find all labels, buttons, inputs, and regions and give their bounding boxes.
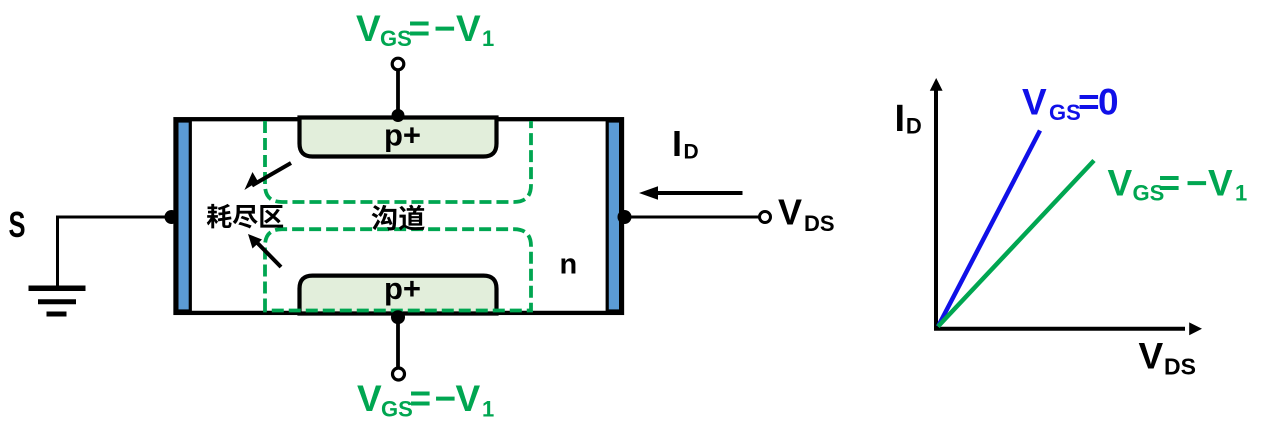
svg-text:DS: DS (804, 211, 835, 236)
p+ gate region (top) (300, 118, 497, 157)
svg-text:I: I (895, 98, 906, 140)
JFET device body (n region) (176, 119, 623, 313)
svg-text:V: V (356, 8, 381, 49)
svg-text:V: V (456, 378, 481, 419)
top gate wire (396, 70, 400, 113)
source contact S (blue bar, left) (177, 121, 190, 311)
ID-VDS curve for VGS=-V1 (green) (938, 161, 1094, 327)
svg-text:I: I (672, 123, 682, 164)
ground symbol (29, 288, 86, 314)
svg-text:V: V (1108, 163, 1133, 204)
svg-text:D: D (684, 141, 699, 164)
svg-text:=: = (1078, 82, 1100, 123)
svg-text:V: V (357, 378, 382, 419)
svg-text:−: − (435, 378, 457, 419)
drain terminal circle (760, 212, 771, 223)
svg-text:p+: p+ (384, 271, 421, 306)
drain junction dot (618, 210, 632, 224)
svg-text:V: V (456, 8, 481, 49)
bottom gate wire (396, 316, 400, 368)
source junction dot (165, 210, 179, 224)
svg-text:DS: DS (1164, 354, 1196, 380)
label 沟道 (channel) (372, 205, 425, 231)
svg-text:1: 1 (482, 397, 494, 422)
svg-text:1: 1 (482, 26, 494, 51)
bottom gate terminal circle (393, 368, 405, 380)
svg-text:GS: GS (1049, 100, 1081, 125)
svg-text:1: 1 (1235, 181, 1247, 206)
bottom gate junction dot (391, 310, 405, 324)
svg-text:S: S (9, 204, 26, 245)
curve label VGS=-V1 (green) (1108, 163, 1248, 206)
graph ID axis label (895, 98, 922, 140)
top gate junction dot (392, 109, 405, 122)
top gate terminal circle (392, 58, 404, 70)
svg-text:V: V (1022, 82, 1047, 123)
curve label VGS=0 (blue) (1022, 82, 1119, 126)
graph VDS axis label (1139, 336, 1196, 380)
svg-text:n: n (560, 249, 578, 281)
svg-text:V: V (1208, 163, 1233, 204)
depletion arrow (upper, pointing lower-left) (244, 163, 291, 190)
svg-text:=: = (1159, 163, 1181, 204)
drain wire (624, 216, 760, 219)
svg-text:0: 0 (1098, 82, 1119, 123)
drain contact D (blue bar, right) (607, 121, 620, 311)
svg-text:=: = (410, 378, 432, 419)
svg-text:−: − (1186, 163, 1208, 204)
bottom gate label VGS=-V1 (357, 378, 494, 422)
graph x-axis (934, 327, 1185, 331)
VDS label (device) (778, 192, 835, 237)
source wire (horizontal) (56, 216, 171, 219)
svg-text:V: V (778, 192, 802, 233)
svg-text:−: − (434, 8, 456, 49)
graph y-axis (934, 88, 938, 328)
svg-text:GS: GS (381, 397, 413, 422)
svg-text:GS: GS (380, 26, 412, 51)
depletion boundary (top gate, green dashed) (265, 121, 531, 202)
source wire (vertical to ground) (56, 216, 59, 286)
ID-VDS curve for VGS=0 (blue) (938, 131, 1040, 327)
svg-text:D: D (906, 114, 922, 139)
depletion boundary (bottom gate, green dashed, closed along bottom edge) (265, 229, 531, 310)
p+ gate region (bottom) (300, 276, 497, 314)
svg-text:=: = (409, 8, 431, 49)
ID label (device) (672, 123, 699, 164)
svg-text:V: V (1139, 336, 1164, 377)
svg-text:p+: p+ (384, 118, 421, 153)
ID current arrow (639, 186, 743, 200)
depletion arrow (lower, pointing upper-left) (248, 234, 281, 267)
label 耗尽区 (depletion region) (207, 204, 283, 229)
top gate label VGS=-V1 (356, 8, 494, 51)
